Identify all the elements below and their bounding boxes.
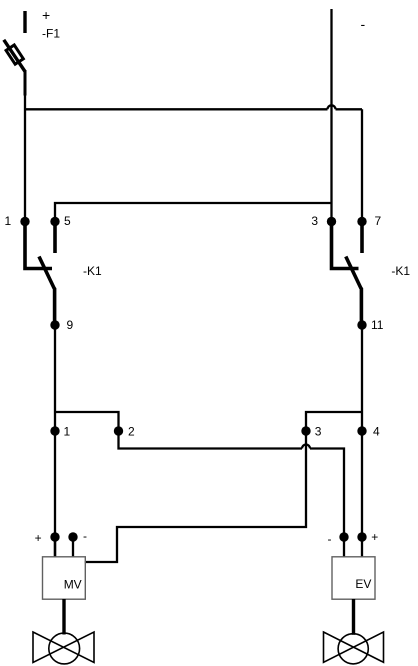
node 7 [357,217,366,226]
wire MV + dot into box [54,537,57,557]
node 3 [327,217,336,226]
wire node 3 to MV - [85,431,306,562]
wire rail drop to contact pin 7 [361,109,363,221]
supply - line (vertical) [330,9,332,222]
svg-text:3: 3 [311,214,318,228]
svg-text:7: 7 [375,214,382,228]
svg-text:3: 3 [315,424,322,438]
node MV - [68,532,77,541]
wire left vertical: fuse to contact pin 1 [24,95,26,222]
wire + rail right segment [336,108,363,110]
contact -K1 left: open contact stub pin 5 [53,222,57,253]
svg-text:-: - [83,529,87,543]
valve EV actuator circle [338,634,368,664]
wire node 2 to EV - (right of hop) [310,449,344,538]
wire pin 9 down to MV + terminal [54,325,56,537]
svg-text:1: 1 [64,424,71,438]
wire MV box to valve [62,599,65,635]
fuse -F1 blade [4,40,25,72]
wire contact pin 5 to - line [55,203,332,222]
svg-text:11: 11 [371,318,384,332]
wire node 2 to EV - (left of hop) [119,431,303,449]
svg-text:1: 1 [5,214,12,228]
wire hop over supply - line [328,105,336,109]
node 5 [50,217,59,226]
node EV + [357,532,366,541]
svg-text:-K1: -K1 [83,264,102,278]
node 3 (terminal row) [301,426,310,435]
node 4 (terminal row) [357,426,366,435]
node 1 [20,217,29,226]
EV box [332,557,375,599]
svg-text:-: - [361,16,366,32]
wire hop over node-3 wire [302,445,310,449]
node 11 [357,320,366,329]
valve EV body (bowtie) [324,632,384,662]
contact -K1 left: moving blade to pin 9 [39,257,55,326]
wire EV box to valve [352,599,355,635]
wire EV - dot into box [343,537,345,557]
contact -K1 right: fixed arm from pin 3 [332,222,359,269]
wire fuse to rail (thick stub) [24,70,27,96]
svg-text:+: + [371,530,378,544]
wire MV - dot into box [72,537,74,557]
wire pin 11 down to EV + terminal [361,325,363,537]
svg-text:5: 5 [64,214,71,228]
svg-text:9: 9 [67,318,74,332]
MV box [43,557,86,599]
svg-text:-K1: -K1 [391,264,410,278]
supply terminal bar (+) [23,11,26,33]
svg-text:EV: EV [355,577,371,591]
valve MV body (bowtie) [33,632,94,663]
wire + rail left segment [25,108,328,110]
node EV - [339,532,348,541]
wire EV + dot into box [361,537,363,557]
node 2 (terminal row) [114,426,123,435]
node 1 (terminal row) [50,426,59,435]
node MV + [50,532,59,541]
contact -K1 right: moving blade to pin 11 [346,257,362,326]
svg-text:+: + [42,7,50,23]
wire branch to node 2 [55,412,119,431]
svg-text:MV: MV [64,577,82,591]
valve MV actuator circle [49,633,80,664]
svg-text:-: - [328,532,332,546]
contact -K1 right: open contact stub pin 7 [360,222,364,253]
svg-text:-F1: -F1 [42,26,60,40]
wire branch to node 3 [306,412,362,431]
contact -K1 left: fixed arm from pin 1 [25,222,52,269]
svg-text:2: 2 [128,424,135,438]
node 9 [50,320,59,329]
svg-text:+: + [35,531,42,545]
fuse -F1 body [6,45,23,64]
svg-text:4: 4 [373,424,380,438]
